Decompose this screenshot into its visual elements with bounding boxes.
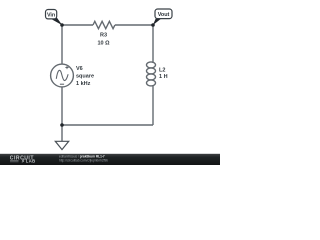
wire top from resistor to Vout node (115, 24, 153, 26)
svg-text:LAB: LAB (26, 159, 36, 164)
voltage source V6 (51, 64, 74, 87)
svg-text:V6: V6 (76, 66, 83, 72)
svg-text:L2: L2 (159, 67, 165, 73)
svg-text:Vout: Vout (158, 12, 170, 18)
wire right lower (inductor to bottom wire) (152, 85, 154, 125)
node ground junction dot (60, 123, 64, 127)
svg-text:R3: R3 (100, 32, 107, 38)
wire bottom (62, 124, 153, 126)
svg-text:http://circuitlab.com/c/jkqmtk: http://circuitlab.com/c/jkqmtkrh2f9b (59, 158, 108, 162)
flag Vin (51, 17, 63, 25)
svg-text:1 H: 1 H (159, 74, 168, 80)
node Vout junction dot (151, 23, 155, 27)
resistor R3 (93, 21, 115, 28)
flag Vout (153, 17, 162, 25)
svg-text:square: square (76, 74, 94, 80)
svg-text:Vin: Vin (47, 13, 55, 19)
wire left upper (Vin node down to source) (61, 25, 63, 64)
node Vin junction dot (60, 23, 64, 27)
svg-text:10 Ω: 10 Ω (97, 40, 110, 46)
inductor L2 (147, 62, 156, 86)
wire left lower (source to bottom junction) (61, 88, 63, 126)
wire right upper (Vout node to inductor) (152, 25, 154, 63)
svg-text:1 kHz: 1 kHz (76, 81, 91, 87)
wire top from Vin node to resistor (62, 24, 93, 26)
ground (61, 125, 63, 141)
